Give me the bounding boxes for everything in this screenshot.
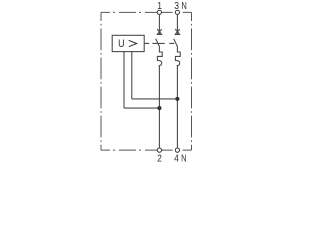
svg-text:1: 1	[157, 0, 162, 11]
svg-text:U: U	[118, 38, 125, 50]
svg-text:4: 4	[174, 153, 179, 164]
svg-text:2: 2	[157, 153, 162, 164]
svg-text:N: N	[181, 152, 186, 163]
svg-text:N: N	[181, 0, 186, 11]
svg-text:3: 3	[174, 0, 179, 11]
